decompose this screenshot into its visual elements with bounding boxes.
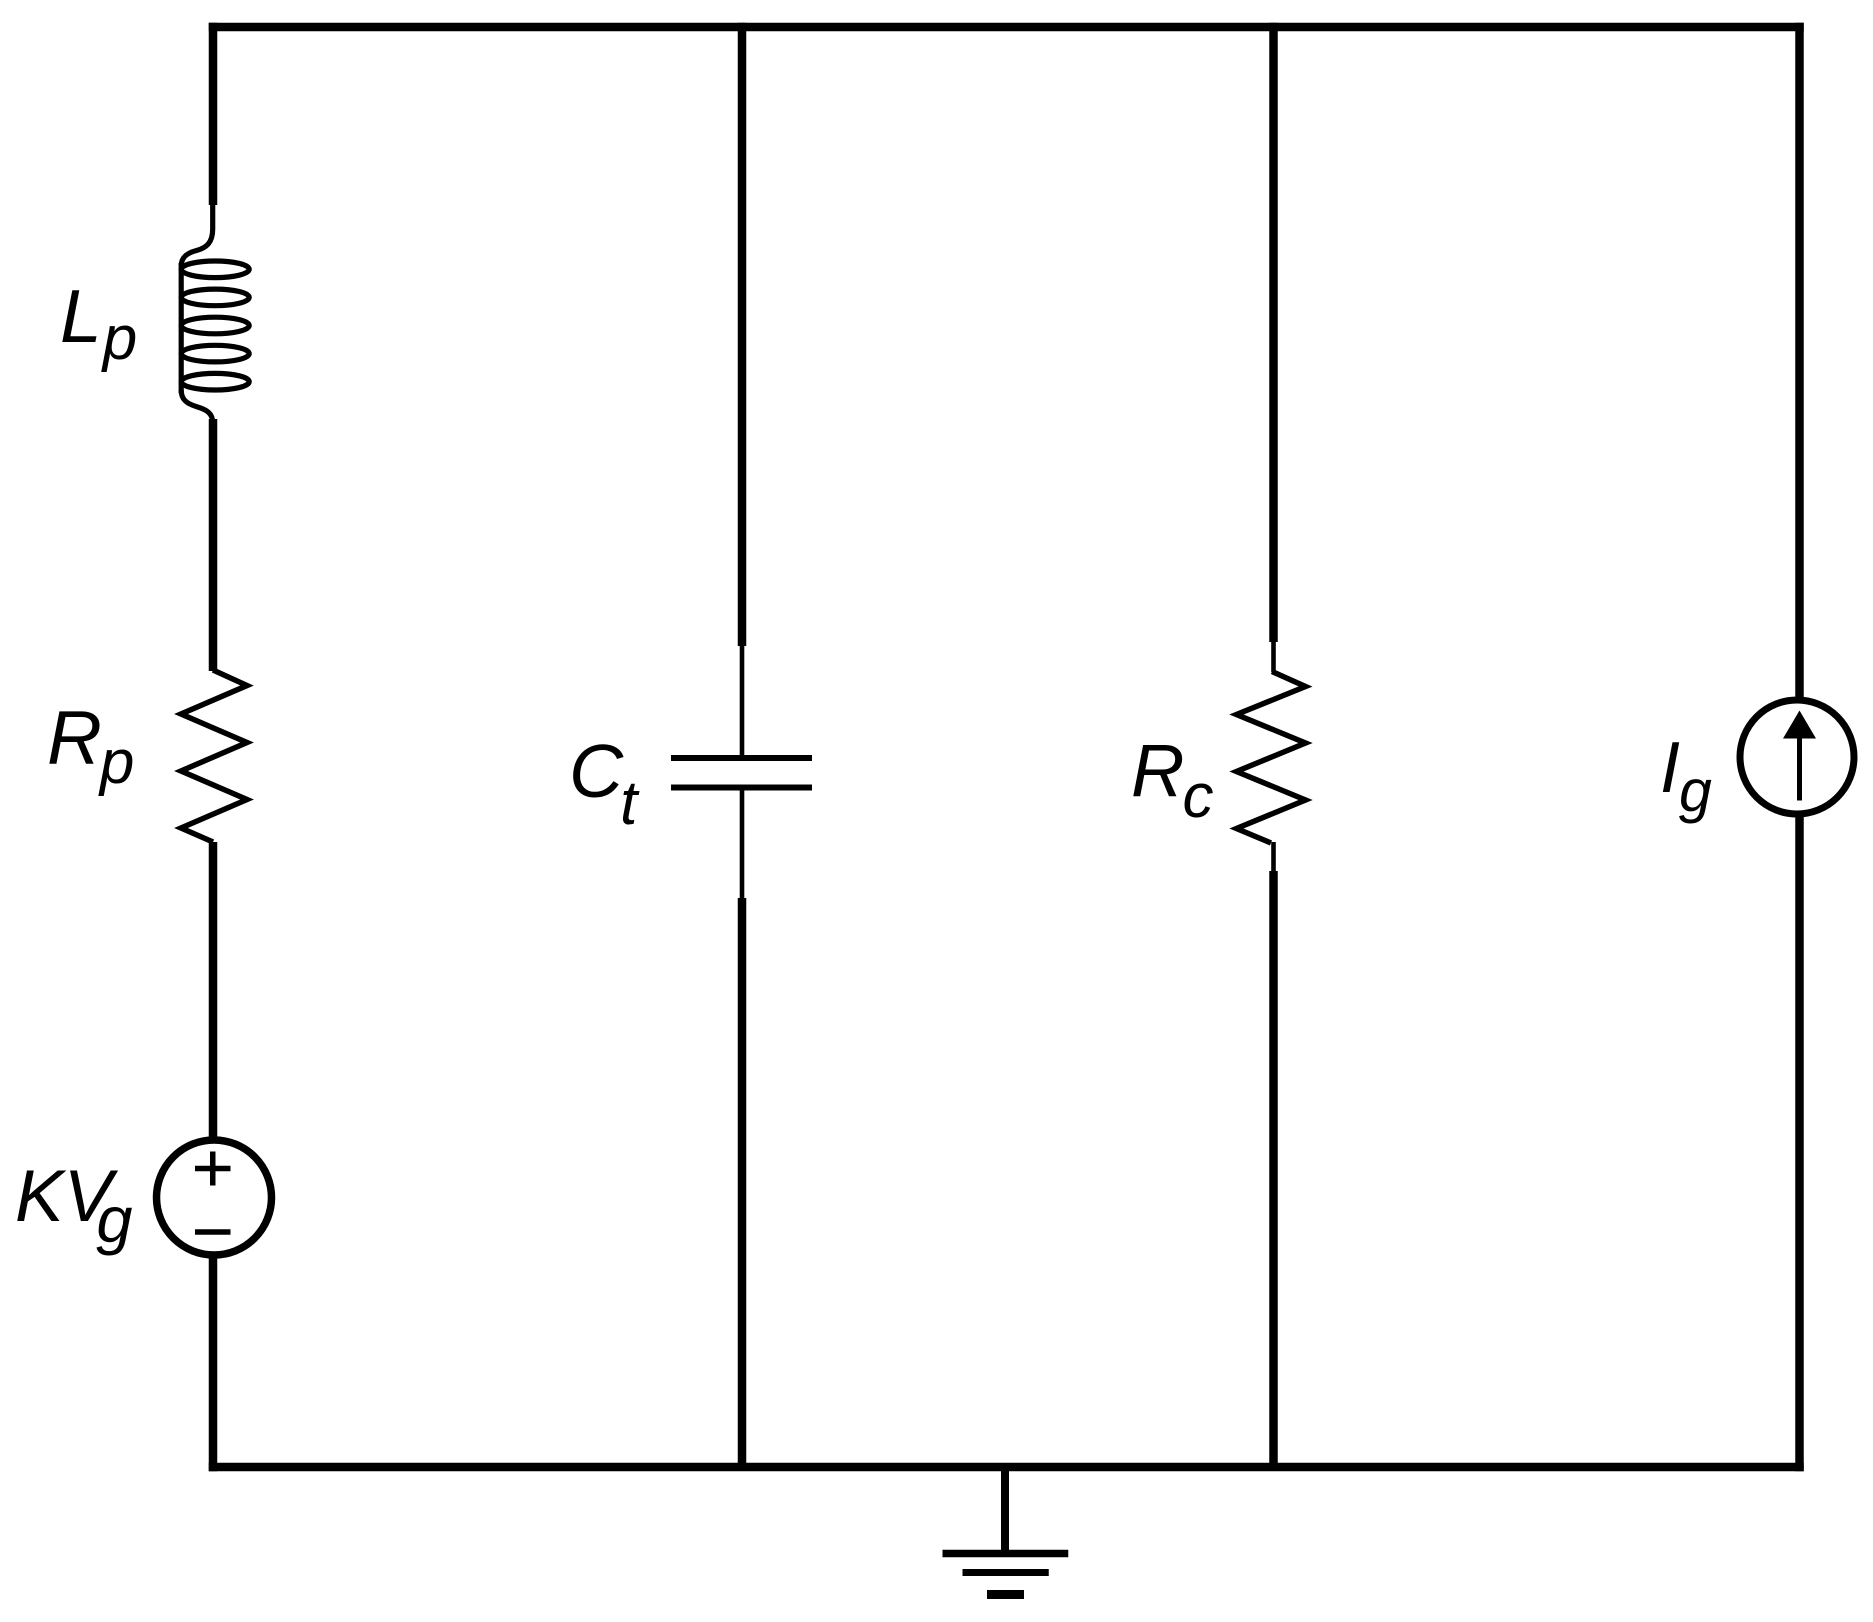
wire right upper <box>1795 23 1804 701</box>
label KVg <box>15 1160 133 1233</box>
label Rp <box>47 701 134 777</box>
ground stem <box>1001 1469 1009 1553</box>
ground bar 3 <box>987 1590 1024 1599</box>
wire left mid <box>209 419 218 671</box>
resistor R2 (Rc) zigzag <box>1237 672 1306 844</box>
ground bar 1 <box>943 1550 1069 1558</box>
capacitor C1 (Ct) top plate <box>671 755 812 761</box>
label Ig <box>1660 732 1712 804</box>
voltage source U1 (KVg) circle <box>157 1140 272 1255</box>
label Lp <box>60 279 137 354</box>
label Rc <box>1131 734 1213 808</box>
wire bottom horizontal <box>209 1463 1804 1472</box>
current source I1 (Ig) circle <box>1740 700 1854 814</box>
label Ct <box>569 734 637 809</box>
inductor L1 coil <box>181 203 249 423</box>
arrow of current source <box>1797 737 1802 801</box>
wire top horizontal <box>209 23 1804 32</box>
wire left lower <box>209 842 218 1142</box>
minus sign <box>195 1229 231 1235</box>
wire Rc branch upper <box>1269 23 1278 642</box>
wire left upper <box>209 23 218 205</box>
lead Rc top thin <box>1271 640 1276 672</box>
ground bar 2 <box>963 1569 1049 1576</box>
wire Ct branch lower <box>738 898 747 1467</box>
capacitor C1 (Ct) bottom plate <box>671 785 812 791</box>
lead Ct top thin <box>740 644 745 756</box>
lead Rc bottom thin <box>1271 842 1276 873</box>
wire left bottom <box>209 1254 218 1472</box>
wire right lower <box>1795 813 1804 1471</box>
lead Ct bottom thin <box>740 790 745 901</box>
wire Ct branch upper <box>738 23 747 646</box>
plus sign <box>195 1152 231 1186</box>
wire Rc branch lower <box>1269 871 1278 1467</box>
resistor R1 (Rp) zigzag <box>181 670 247 842</box>
